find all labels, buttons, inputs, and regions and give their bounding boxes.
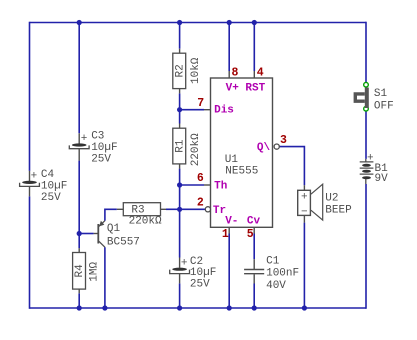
svg-text:4: 4	[257, 67, 264, 80]
wire R1 bottom lead	[179, 169, 181, 185]
wire C2 top lead	[179, 209, 181, 257]
svg-text:25V: 25V	[190, 279, 210, 291]
wire Q1 base	[79, 233, 98, 235]
svg-text:1MΩ: 1MΩ	[88, 261, 100, 281]
svg-text:7: 7	[197, 97, 204, 110]
svg-text:Q\: Q\	[257, 142, 271, 154]
svg-text:+: +	[181, 258, 188, 270]
wire left rail upper	[29, 22, 31, 171]
svg-text:R2: R2	[174, 64, 186, 77]
junction node 6	[177, 182, 182, 187]
op-amp U1 NE555	[211, 78, 273, 227]
pin label V-	[225, 215, 238, 227]
svg-text:BEEP: BEEP	[325, 204, 352, 216]
wire pin 1	[228, 227, 230, 308]
svg-text:220kΩ: 220kΩ	[190, 133, 202, 166]
wire C2 bottom lead	[179, 283, 181, 308]
svg-text:10kΩ: 10kΩ	[190, 57, 202, 84]
svg-text:2: 2	[197, 197, 204, 210]
wire C1 bottom lead	[253, 284, 255, 309]
svg-text:R3: R3	[131, 204, 144, 216]
wire R3 right lead	[161, 208, 180, 210]
junction Q1 base node	[77, 231, 82, 236]
svg-text:OFF: OFF	[374, 100, 394, 112]
wire pin 8	[228, 23, 230, 79]
wire pin 4	[253, 23, 255, 79]
svg-text:R4: R4	[74, 264, 86, 278]
svg-text:+: +	[301, 191, 308, 203]
pin number 5	[247, 228, 254, 241]
pin number 3	[280, 134, 287, 147]
wire C3 branch top	[78, 23, 80, 134]
svg-text:10µF: 10µF	[41, 181, 67, 193]
wire right rail lower	[365, 184, 367, 309]
svg-text:25V: 25V	[91, 154, 111, 166]
junction node 7	[177, 107, 182, 112]
svg-text:U1: U1	[225, 154, 239, 166]
wire R2 top lead	[179, 23, 181, 49]
svg-text:25V: 25V	[41, 192, 61, 204]
svg-text:9V: 9V	[375, 173, 389, 185]
wire bottom rail	[30, 307, 367, 309]
wire speaker bottom	[303, 223, 305, 308]
pin label Th	[214, 180, 227, 192]
svg-text:C1: C1	[266, 255, 280, 267]
capacitor C4	[20, 169, 68, 204]
transistor Q1	[98, 221, 140, 249]
wire pin 5 to C1	[253, 227, 255, 259]
svg-text:C3: C3	[91, 131, 104, 143]
junction bottom rail C2	[177, 305, 182, 310]
junction top rail pin8	[227, 20, 232, 25]
resistor R4	[73, 248, 101, 293]
svg-text:+: +	[367, 152, 374, 164]
wire Q1 collector	[104, 247, 106, 308]
pin number 6	[197, 172, 204, 185]
svg-text:S1: S1	[374, 88, 388, 100]
switch S1	[355, 82, 393, 112]
capacitor C2	[170, 256, 217, 291]
svg-text:10µF: 10µF	[190, 267, 216, 279]
svg-text:Th: Th	[214, 180, 227, 192]
wire node 2 to pin Tr	[180, 208, 206, 210]
svg-text:C4: C4	[41, 169, 55, 181]
svg-text:6: 6	[197, 172, 204, 185]
junction top rail pin4	[252, 20, 257, 25]
svg-text:Cv: Cv	[247, 215, 261, 227]
junction bottom rail Q1	[102, 305, 107, 310]
svg-text:8: 8	[232, 67, 239, 80]
svg-text:220kΩ: 220kΩ	[129, 216, 162, 228]
pin label Q	[257, 142, 271, 154]
svg-text:V+ RST: V+ RST	[226, 83, 266, 95]
svg-text:−: −	[301, 206, 308, 218]
wire left rail lower	[29, 196, 31, 308]
wire node 7 to pin Dis	[180, 109, 211, 111]
speaker U2 BEEP	[298, 184, 352, 222]
wire right rail upper	[365, 22, 367, 83]
pin number 4	[257, 67, 264, 80]
wire C3 branch bottom	[78, 161, 80, 234]
svg-text:Tr: Tr	[213, 205, 226, 217]
svg-text:+: +	[31, 171, 38, 183]
svg-text:3: 3	[280, 134, 287, 147]
svg-text:U2: U2	[325, 193, 338, 205]
svg-text:Q1: Q1	[107, 223, 121, 235]
svg-text:100nF: 100nF	[266, 268, 299, 280]
junction bottom rail R4	[77, 305, 82, 310]
svg-text:5: 5	[247, 228, 254, 241]
svg-text:BC557: BC557	[107, 236, 140, 248]
pin label Tr	[213, 205, 226, 217]
pin 3 open circle	[274, 144, 279, 149]
wire node 6 to node 2	[179, 185, 181, 209]
junction bottom rail speaker	[302, 305, 307, 310]
pin number 8	[232, 67, 239, 80]
svg-text:Dis: Dis	[214, 105, 234, 117]
pin 2 open circle	[205, 207, 210, 212]
resistor R3	[123, 203, 162, 228]
pin number 7	[197, 97, 204, 110]
junction bottom rail pin1	[227, 305, 232, 310]
junction bottom rail C1	[252, 305, 257, 310]
junction node 2	[177, 207, 182, 212]
pin number 2	[197, 197, 204, 210]
svg-text:R1: R1	[174, 139, 186, 153]
resistor R2	[173, 49, 202, 94]
pin label Cv	[247, 215, 261, 227]
wire pin 3 to speaker	[279, 147, 304, 186]
wire R4 bottom lead	[78, 293, 80, 308]
svg-text:1: 1	[222, 228, 229, 241]
pin label V+ RST	[226, 83, 266, 95]
capacitor C3	[69, 131, 117, 166]
junction top rail C3	[77, 20, 82, 25]
resistor R1	[173, 124, 202, 169]
svg-text:NE555: NE555	[225, 166, 258, 178]
svg-text:40V: 40V	[266, 280, 286, 292]
junction top rail R2	[177, 20, 182, 25]
svg-text:V-: V-	[225, 215, 238, 227]
wire R4 top lead	[78, 234, 80, 249]
pin label Dis	[214, 105, 234, 117]
pin number 1	[222, 228, 229, 241]
wire node 6 to pin Th	[180, 184, 211, 186]
svg-text:C2: C2	[190, 256, 203, 268]
svg-text:10µF: 10µF	[91, 142, 117, 154]
svg-text:+: +	[81, 133, 88, 145]
battery B1	[360, 152, 388, 185]
capacitor C1	[244, 255, 299, 292]
wire top rail	[30, 22, 366, 24]
wire R3 left to Q1 emitter	[105, 209, 123, 220]
wire R1 top lead	[179, 110, 181, 124]
wire R2 bottom lead	[179, 93, 181, 109]
wire right rail mid	[365, 111, 367, 159]
